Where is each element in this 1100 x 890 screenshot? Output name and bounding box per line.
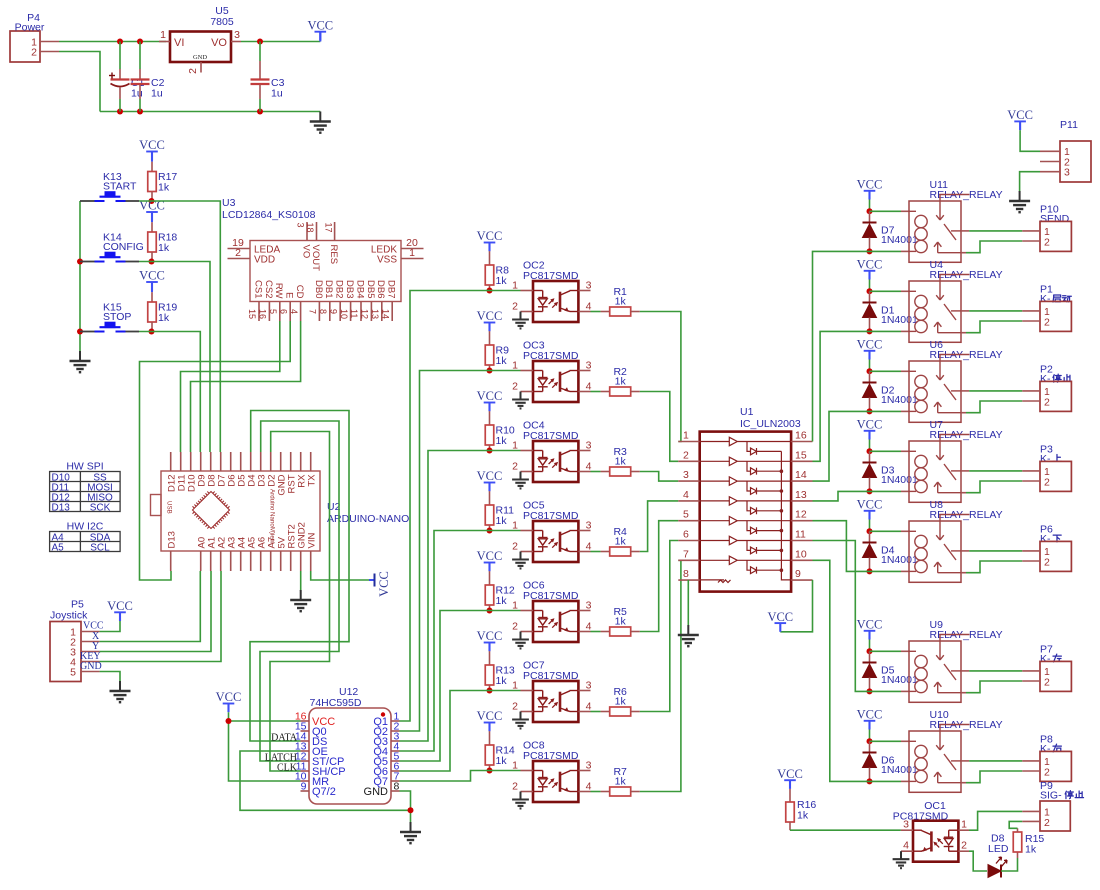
svg-text:GND: GND xyxy=(364,786,389,798)
svg-text:14: 14 xyxy=(795,469,807,481)
svg-text:2: 2 xyxy=(683,449,689,461)
svg-text:3: 3 xyxy=(296,223,306,228)
svg-text:VO: VO xyxy=(300,245,311,259)
pin stub OC3-2 xyxy=(521,391,534,393)
pin U3-6 E xyxy=(289,302,291,322)
junction dot U12 ground xyxy=(408,807,414,813)
pin stub OC1-4 xyxy=(901,850,913,852)
svg-text:CONFIG: CONFIG xyxy=(103,241,144,253)
svg-text:CD: CD xyxy=(294,285,305,299)
svg-text:8: 8 xyxy=(394,781,400,793)
svg-text:3: 3 xyxy=(586,599,592,611)
wire U6 coil bottom xyxy=(870,410,902,412)
capacitor C2 1u xyxy=(139,42,141,70)
svg-text:U3: U3 xyxy=(222,197,236,209)
svg-text:GND: GND xyxy=(80,661,102,672)
svg-text:VCC: VCC xyxy=(139,269,165,283)
svg-text:6: 6 xyxy=(278,309,288,314)
svg-text:3: 3 xyxy=(586,279,592,291)
svg-text:VCC: VCC xyxy=(777,767,803,781)
wire U4 to P1 pin2 xyxy=(966,321,1022,333)
junction dots buttons common xyxy=(77,259,83,265)
wire U11 to P10 pin1 xyxy=(969,230,1022,232)
IC U3 LCD12864_KS0108 xyxy=(250,241,401,302)
junction dot R9 xyxy=(487,368,493,374)
svg-text:5: 5 xyxy=(70,667,76,679)
wire U1 pin15 to U4 coil xyxy=(813,331,870,461)
diode D1 1N4001 xyxy=(869,291,871,302)
pin U2 D7 xyxy=(220,452,222,471)
resistor R16 1k xyxy=(789,789,791,802)
junction dot U11 coil bottom xyxy=(867,248,873,254)
IC U2 ARDUINO-NANO xyxy=(161,471,320,551)
pin stub OC4-1 xyxy=(521,450,534,452)
wire U9 to P7 pin1 xyxy=(969,670,1022,672)
pin P5-2 X xyxy=(81,641,100,643)
svg-text:1: 1 xyxy=(512,600,518,612)
pin P5-3 Y xyxy=(81,651,100,653)
svg-text:HW SPI: HW SPI xyxy=(66,461,103,473)
svg-text:VOUT: VOUT xyxy=(310,245,321,272)
pin stub P6-2 xyxy=(1022,560,1040,562)
pin U2 D3 xyxy=(260,452,262,471)
pin U3-20 LEDK xyxy=(401,248,424,250)
pin stub OC2-1 xyxy=(521,290,534,292)
pin U12-15 Q0 xyxy=(301,730,310,732)
pin stub U5-1 xyxy=(159,41,170,43)
capacitor C1 1u polarized xyxy=(119,42,121,70)
svg-text:9: 9 xyxy=(301,781,307,793)
pin stub U9 common xyxy=(961,670,969,672)
svg-text:1k: 1k xyxy=(158,312,170,324)
svg-text:3: 3 xyxy=(586,519,592,531)
svg-text:DB4: DB4 xyxy=(354,280,365,298)
resistor R19 1k xyxy=(151,292,153,302)
wire U2 D4 DATA to U12 DS xyxy=(250,411,349,742)
svg-text:VCC: VCC xyxy=(477,549,503,563)
wire U12 Q7 to OC8 feed xyxy=(400,771,487,782)
pin U1-2 xyxy=(678,460,699,462)
pin U12-9 Q7/2 xyxy=(301,790,310,792)
svg-text:1: 1 xyxy=(512,360,518,372)
pin stub U4 NO xyxy=(961,332,966,334)
svg-text:1N4001: 1N4001 xyxy=(881,314,918,326)
svg-text:VCC: VCC xyxy=(107,599,133,613)
ground symbol at P5 xyxy=(119,681,121,691)
pin U3-5 RW xyxy=(279,302,281,322)
ground at OC7 pin2 xyxy=(520,712,522,720)
svg-text:1k: 1k xyxy=(496,355,508,367)
svg-text:VCC: VCC xyxy=(857,418,883,432)
svg-text:VCC: VCC xyxy=(477,229,503,243)
resistor R13 1k xyxy=(489,651,491,665)
svg-text:3: 3 xyxy=(586,439,592,451)
svg-text:DB2: DB2 xyxy=(334,280,345,298)
svg-text:DATA: DATA xyxy=(271,733,298,744)
svg-text:VCC: VCC xyxy=(857,498,883,512)
svg-text:2: 2 xyxy=(1044,766,1050,778)
junction dot U7 coil bottom xyxy=(867,488,873,494)
wire U2 GND2 to ground xyxy=(300,571,302,591)
pin stub U8 common xyxy=(961,550,969,552)
wire U8 to P6 pin2 xyxy=(966,561,1022,573)
svg-text:CS1: CS1 xyxy=(252,280,263,298)
svg-text:2: 2 xyxy=(512,621,518,633)
pin P5-1 VCC xyxy=(81,631,100,633)
wire U1 pin10 to U10 coil xyxy=(813,560,870,781)
svg-text:PC817SMD: PC817SMD xyxy=(523,350,579,362)
pin stub P3-2 xyxy=(1022,480,1040,482)
svg-text:1k: 1k xyxy=(496,275,508,287)
svg-text:2: 2 xyxy=(512,541,518,553)
svg-text:2: 2 xyxy=(1044,556,1050,568)
svg-text:D13: D13 xyxy=(166,531,177,548)
pin stub OC2-4 xyxy=(578,311,590,313)
svg-text:13: 13 xyxy=(370,309,380,319)
svg-text:16: 16 xyxy=(795,430,807,442)
resistor R1 1k xyxy=(591,311,601,313)
pin stub P1-2 xyxy=(1022,320,1040,322)
pin stub OC4-2 xyxy=(521,471,534,473)
junction dot U10 coil top xyxy=(867,738,873,744)
pin stub U10 common xyxy=(961,760,969,762)
wire LED D8 to R15 xyxy=(1001,858,1018,871)
pin U1-4 xyxy=(678,500,699,502)
junction dot U7 coil top xyxy=(867,448,873,454)
svg-text:74HC595D: 74HC595D xyxy=(310,697,362,709)
svg-text:1: 1 xyxy=(409,247,415,259)
junction dots on ground rail xyxy=(117,109,123,115)
svg-text:Q7/2: Q7/2 xyxy=(312,786,336,798)
pin U1-9 xyxy=(791,579,812,581)
pin stub OC8-3 xyxy=(578,770,590,772)
svg-text:1: 1 xyxy=(512,280,518,292)
optocoupler OC6 PC817SMD xyxy=(533,601,578,642)
pin U3-17 RES xyxy=(334,222,336,241)
ground symbol buttons xyxy=(79,351,81,361)
wire U10 to P8 pin2 xyxy=(966,771,1022,783)
pin stub P9-2 xyxy=(1022,820,1040,822)
svg-text:VCC: VCC xyxy=(857,258,883,272)
resistor R17 1k xyxy=(151,162,153,172)
pin U2 A2 xyxy=(220,551,222,571)
pin stub OC7-4 xyxy=(578,711,590,713)
resistor R11 1k xyxy=(489,491,491,505)
junction dot U9 coil bottom xyxy=(867,688,873,694)
wire U1 pin13 to U7 coil xyxy=(813,491,870,501)
svg-text:1k: 1k xyxy=(496,435,508,447)
pin U3-18 VOUT xyxy=(316,222,318,241)
diode D6 1N4001 xyxy=(869,741,871,752)
wire OC1 pin2 to LED D8 xyxy=(969,851,987,871)
pin stub P8-2 xyxy=(1022,770,1040,772)
pin U2 A0 xyxy=(200,551,202,571)
pin U12-4 Q4 xyxy=(391,750,400,752)
pin U3-4 CD xyxy=(300,302,302,322)
ground symbol under U12 xyxy=(410,822,412,832)
pin U2 A5 xyxy=(250,551,252,571)
pin U2 RST2 xyxy=(290,551,292,571)
pin stub OC8-4 xyxy=(578,791,590,793)
pin stub P4-2 xyxy=(40,51,59,53)
junction dot U8 coil top xyxy=(867,528,873,534)
svg-text:9: 9 xyxy=(328,309,338,314)
svg-text:RW: RW xyxy=(273,283,284,299)
svg-text:5: 5 xyxy=(268,309,278,314)
pin stub U6 NO xyxy=(961,412,966,414)
svg-text:Arduino NanoM)iew: Arduino NanoM)iew xyxy=(269,489,276,544)
svg-text:3: 3 xyxy=(1064,167,1070,179)
svg-text:VCC: VCC xyxy=(377,571,391,597)
wire U6 to P2 pin2 xyxy=(966,401,1022,413)
junction dot U9 coil top xyxy=(867,648,873,654)
pin U2 GND2 xyxy=(300,551,302,571)
svg-text:3: 3 xyxy=(586,679,592,691)
svg-text:2: 2 xyxy=(961,840,967,852)
pin stub OC6-4 xyxy=(578,631,590,633)
pin stub P1-1 xyxy=(1022,310,1040,312)
wire U8 coil bottom xyxy=(870,570,902,572)
junction dot R10 xyxy=(487,448,493,454)
svg-text:17: 17 xyxy=(323,223,333,233)
pin stub OC7-2 xyxy=(521,711,534,713)
pin U1-3 xyxy=(678,480,699,482)
USB box on U2 xyxy=(151,495,162,516)
ground symbol under U2 xyxy=(300,590,302,600)
wire VCC to U10 coil xyxy=(870,740,902,742)
ground at OC2 pin2 xyxy=(520,312,522,320)
pin U2 A4 xyxy=(240,551,242,571)
wire U10 to P8 pin1 xyxy=(969,760,1022,762)
pin U2 A7 xyxy=(270,551,272,571)
svg-text:SCL: SCL xyxy=(90,542,110,553)
svg-text:11: 11 xyxy=(349,309,359,318)
svg-text:1k: 1k xyxy=(496,755,508,767)
svg-text:1k: 1k xyxy=(496,595,508,607)
pin U2 5V xyxy=(280,551,282,571)
svg-text:SIG-: SIG- xyxy=(1040,790,1062,802)
pin stub OC1-2 xyxy=(958,850,969,852)
wire R1 to ULN2003 input 1 xyxy=(640,312,681,442)
svg-text:1N4001: 1N4001 xyxy=(881,674,918,686)
svg-text:VCC: VCC xyxy=(857,618,883,632)
optocoupler OC8 PC817SMD xyxy=(533,761,578,802)
resistor R14 1k xyxy=(489,731,491,745)
wire P5 GND to ground xyxy=(100,672,120,683)
svg-text:HW I2C: HW I2C xyxy=(67,521,104,533)
wire U1 pin8 to ground xyxy=(687,580,689,626)
svg-text:4: 4 xyxy=(586,780,592,792)
svg-text:1k: 1k xyxy=(797,810,809,822)
pin U1-13 xyxy=(791,500,812,502)
wire P5 Y to A1 xyxy=(100,571,211,652)
wire R16 to OC1 pin3 xyxy=(790,829,901,831)
wire VCC to U4 coil xyxy=(870,290,902,292)
svg-text:1N4001: 1N4001 xyxy=(881,394,918,406)
pin stub OC4-3 xyxy=(578,450,590,452)
pin U12-16 VCC xyxy=(301,720,310,722)
wire P11-1 to VCC xyxy=(1020,130,1040,151)
pin stub U11 common xyxy=(961,230,969,232)
pin stub U10 NO xyxy=(961,782,966,784)
pin U1-10 xyxy=(791,559,812,561)
resistor R15 1k xyxy=(1017,852,1019,858)
resistor R10 1k xyxy=(489,411,491,425)
svg-text:START: START xyxy=(103,181,137,193)
ULN2003 internal buffers and diodes xyxy=(700,437,791,582)
optocoupler OC2 PC817SMD xyxy=(533,281,578,322)
svg-text:K-: K- xyxy=(1040,743,1051,755)
svg-text:1u: 1u xyxy=(151,88,163,100)
wire U3 E to Arduino D13 xyxy=(140,321,291,580)
pin U3-15 CS1 xyxy=(258,302,260,322)
wire U7 to P3 pin2 xyxy=(966,481,1022,493)
pin U2 RX xyxy=(300,452,302,471)
wire P5 KEY to A2 xyxy=(100,571,221,662)
pin stub P8-1 xyxy=(1022,760,1040,762)
wire R6 to ULN2003 input 6 xyxy=(640,541,679,712)
svg-text:1k: 1k xyxy=(615,776,627,788)
QFP diamond on U2 xyxy=(193,492,230,529)
svg-text:1: 1 xyxy=(961,819,967,831)
pin U1-12 xyxy=(791,520,812,522)
junction dot R19 xyxy=(149,329,155,335)
svg-text:K-: K- xyxy=(1040,293,1051,305)
svg-text:P11: P11 xyxy=(1060,119,1078,131)
svg-text:12: 12 xyxy=(795,509,807,521)
junction dot R11 xyxy=(487,528,493,534)
svg-text:K-: K- xyxy=(1040,653,1051,665)
pin U3-7 DB0 xyxy=(318,302,320,322)
pin U1-15 xyxy=(791,460,812,462)
pin U12-3 Q3 xyxy=(391,740,400,742)
svg-text:7805: 7805 xyxy=(210,16,234,28)
wire VCC to U11 coil xyxy=(870,210,902,212)
pin stub U4 common xyxy=(961,310,969,312)
pin U1-1 xyxy=(678,441,699,443)
svg-text:2: 2 xyxy=(31,47,37,59)
ground rail wire xyxy=(100,111,320,113)
svg-text:2: 2 xyxy=(1044,236,1050,248)
junction dot U4 coil top xyxy=(867,288,873,294)
svg-text:DB5: DB5 xyxy=(365,280,376,298)
wire U2 VIN to VCC xyxy=(311,571,369,580)
svg-text:3: 3 xyxy=(586,759,592,771)
junction dot R17 xyxy=(149,198,155,204)
pin stub OC8-2 xyxy=(521,791,534,793)
pin U2 D11 xyxy=(180,452,182,471)
svg-text:VCC: VCC xyxy=(477,309,503,323)
pin U2 TX xyxy=(310,452,312,471)
pin stub P10-2 xyxy=(1022,240,1040,242)
svg-text:VCC: VCC xyxy=(767,610,793,624)
ground at OC4 pin2 xyxy=(520,472,522,480)
svg-text:1u: 1u xyxy=(271,88,283,100)
wire K15 row to D9 column xyxy=(139,332,200,453)
pin stub P9-1 xyxy=(1022,810,1040,812)
svg-text:2: 2 xyxy=(512,701,518,713)
svg-text:14: 14 xyxy=(380,309,390,319)
svg-text:VO: VO xyxy=(211,37,227,49)
pin U12-14 DS xyxy=(301,740,310,742)
wire U10 coil bottom xyxy=(870,780,902,782)
pin U2 D8 xyxy=(210,452,212,471)
svg-text:1: 1 xyxy=(512,760,518,772)
pin U2 D6 xyxy=(230,452,232,471)
resistor R4 1k xyxy=(591,551,601,553)
pin U12-11 SH/CP xyxy=(301,770,310,772)
pin U2 A6 xyxy=(260,551,262,571)
svg-text:IC_ULN2003: IC_ULN2003 xyxy=(740,418,801,430)
pin U3-16 CS2 xyxy=(268,302,270,322)
junction dot U12 VCC xyxy=(226,718,232,724)
svg-text:DB1: DB1 xyxy=(323,280,334,298)
svg-text:LCD12864_KS0108: LCD12864_KS0108 xyxy=(222,209,316,221)
svg-text:16: 16 xyxy=(258,309,268,319)
pin U12-5 Q5 xyxy=(391,760,400,762)
pin stub OC2-2 xyxy=(521,311,534,313)
pin U2 D12 xyxy=(170,452,172,471)
wire K13 row to D7 column xyxy=(139,201,220,452)
svg-text:4: 4 xyxy=(586,540,592,552)
wire U1 pin12 to U8 coil xyxy=(813,521,870,572)
svg-text:1: 1 xyxy=(683,430,689,442)
junction dot U6 coil bottom xyxy=(867,408,873,414)
junction dot U10 coil bottom xyxy=(867,778,873,784)
pin stub P10-1 xyxy=(1022,230,1040,232)
connector P4 Power xyxy=(10,31,40,62)
svg-text:6: 6 xyxy=(683,529,689,541)
svg-text:8: 8 xyxy=(318,309,328,314)
svg-text:VCC: VCC xyxy=(477,389,503,403)
pin stub P4-1 xyxy=(40,41,59,43)
wire P4-2 down to ground rail xyxy=(59,52,100,112)
optocoupler OC3 PC817SMD xyxy=(533,361,578,402)
wire U1 pin9 to VCC xyxy=(780,580,812,632)
wire feed row into OC6 pin1 xyxy=(486,610,521,612)
pin U12-8 GND xyxy=(391,790,400,792)
svg-text:VCC: VCC xyxy=(1007,108,1033,122)
svg-text:15: 15 xyxy=(795,449,807,461)
svg-text:1N4001: 1N4001 xyxy=(881,554,918,566)
svg-text:1k: 1k xyxy=(615,616,627,628)
pin U12-12 ST/CP xyxy=(301,760,310,762)
wire VCC to U12 pin16 and MR xyxy=(229,712,301,721)
wire U7 coil bottom xyxy=(870,490,902,492)
pin stub P2-1 xyxy=(1022,390,1040,392)
ground at OC3 pin2 xyxy=(520,392,522,400)
svg-text:7: 7 xyxy=(308,309,318,314)
wire feed row into OC2 pin1 xyxy=(486,290,521,292)
svg-text:9: 9 xyxy=(795,568,801,580)
svg-text:GND: GND xyxy=(193,54,207,61)
svg-text:4: 4 xyxy=(683,489,689,501)
pin U1-8 xyxy=(678,579,699,581)
pushbutton K13 START xyxy=(80,200,95,202)
pin stub U8 NO xyxy=(961,572,966,574)
pin U2 D9 xyxy=(200,452,202,471)
wire U2 D3 LATCH to U12 ST/CP xyxy=(260,421,339,761)
pin U12-10 MR xyxy=(301,780,310,782)
pin stub P11-2 xyxy=(1040,161,1060,163)
svg-text:DB6: DB6 xyxy=(375,280,386,298)
pin stub P2-2 xyxy=(1022,400,1040,402)
wire P4-1 to U5 VI xyxy=(59,41,166,43)
diode D7 1N4001 xyxy=(869,211,871,222)
svg-text:DB3: DB3 xyxy=(344,280,355,298)
wire P11-3 to ground xyxy=(1020,172,1040,192)
svg-text:2: 2 xyxy=(512,461,518,473)
